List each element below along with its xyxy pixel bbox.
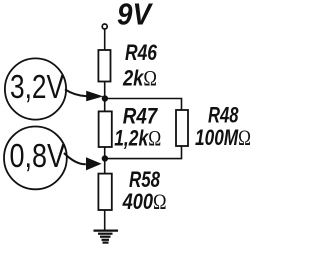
- wire R46 to R47: [104, 82, 106, 112]
- wire terminal to R46: [104, 29, 106, 50]
- svg-text:9V: 9V: [117, 0, 153, 32]
- wire R47 to R58: [104, 147, 106, 174]
- arrow from 0,8V to node B: [64, 153, 86, 164]
- svg-text:100MΩ: 100MΩ: [195, 125, 251, 150]
- node A (3,2V node): [102, 95, 108, 101]
- wire R58 to ground: [104, 210, 106, 230]
- svg-text:0,8V: 0,8V: [10, 137, 66, 174]
- svg-text:1,2kΩ: 1,2kΩ: [114, 126, 161, 151]
- svg-text:2kΩ: 2kΩ: [122, 66, 157, 91]
- svg-text:R48: R48: [208, 103, 239, 128]
- probe circle 0,8V: [4, 126, 67, 189]
- resistor R58: [98, 174, 111, 210]
- ground: [94, 231, 119, 243]
- svg-text:400Ω: 400Ω: [122, 189, 167, 214]
- probe circle 3,2V: [5, 58, 66, 119]
- wire R48 bottom to node B: [105, 146, 182, 159]
- svg-text:R46: R46: [125, 40, 158, 65]
- resistor R46: [98, 50, 110, 82]
- svg-text:3,2V: 3,2V: [10, 68, 64, 105]
- resistor R47: [99, 111, 112, 147]
- node B (0,8V node): [102, 155, 108, 161]
- resistor R48: [176, 110, 188, 146]
- wire node A to R48 branch top: [105, 99, 182, 111]
- arrow from 3,2V to node A: [65, 89, 87, 96]
- terminal 9V: [102, 24, 107, 29]
